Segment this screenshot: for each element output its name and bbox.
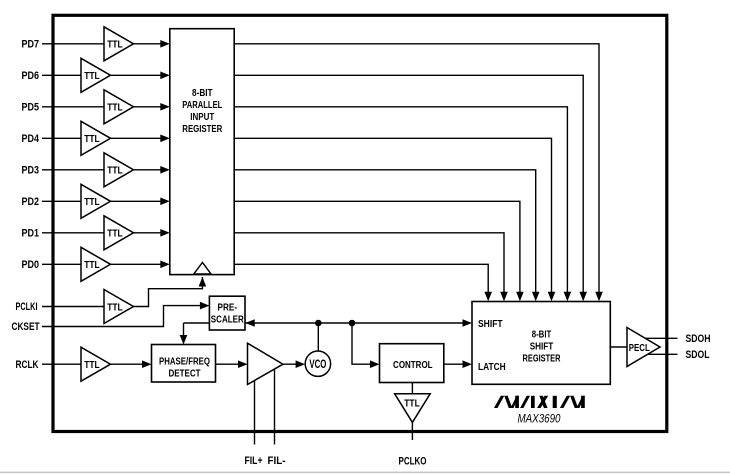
8-bit parallel input register block	[170, 29, 234, 275]
arrow RCLK into phase detector	[142, 360, 152, 368]
wire RCLK buffer to phase detector	[111, 363, 149, 365]
wire PD6 input	[42, 74, 166, 76]
buffer TTL PCLKI	[104, 290, 134, 324]
arrow PD1 into register	[160, 229, 170, 237]
wire FIL+	[254, 380, 256, 445]
arrow CKSET into prescaler	[200, 302, 210, 310]
arrow Q5 into shift register	[564, 292, 572, 302]
arrow PD4 into register	[160, 135, 170, 143]
buffer TTL PD7	[104, 27, 134, 61]
arrow Q7 into shift register	[595, 292, 603, 302]
wire clock to control	[352, 323, 377, 364]
svg-text:DETECT: DETECT	[169, 368, 201, 379]
arrow PD5 into register	[160, 103, 170, 111]
arrow Q1 into shift register	[500, 292, 508, 302]
pin labels left	[12, 39, 40, 371]
wire PCLKO output	[411, 422, 413, 440]
wire RCLK input	[42, 363, 81, 365]
arrow clock bus into shift input	[463, 319, 473, 327]
VCO	[305, 351, 330, 376]
arrow clock into parallel register	[199, 277, 207, 287]
wire Q2 to shift register	[234, 201, 520, 294]
svg-text:PCLKI: PCLKI	[16, 301, 38, 313]
arrow Q3 into shift register	[532, 292, 540, 302]
wire SDOH output	[645, 337, 677, 339]
MAXIM logo	[494, 396, 585, 408]
svg-text:MAX3690: MAX3690	[518, 412, 561, 426]
buffer TTL PD3	[104, 153, 134, 187]
arrowheads	[142, 40, 603, 368]
wire CKSET to prescaler	[42, 306, 207, 327]
svg-text:TTL: TTL	[404, 398, 420, 410]
border frame of MAX3690	[53, 15, 667, 431]
arrow PD2 into register	[160, 198, 170, 206]
wire FIL-	[274, 369, 276, 445]
arrow Q0 into shift register	[484, 292, 492, 302]
prescaler block	[209, 296, 245, 330]
svg-text:RCLK: RCLK	[16, 359, 39, 371]
svg-text:PRE-: PRE-	[218, 303, 238, 314]
buffer TTL PD6	[81, 58, 111, 92]
wire Q4 to shift register	[234, 138, 551, 294]
svg-text:PD7: PD7	[22, 39, 40, 51]
svg-text:FIL+: FIL+	[245, 455, 263, 467]
svg-text:PD1: PD1	[22, 228, 40, 240]
arrow into loop amp	[238, 360, 248, 368]
pin labels right and bottom	[245, 333, 711, 467]
loop filter amplifier	[248, 343, 284, 384]
control block	[380, 344, 444, 383]
wire Q1 to shift register	[234, 233, 504, 294]
svg-text:PD6: PD6	[22, 70, 40, 82]
svg-text:PECL: PECL	[629, 343, 650, 354]
arrow Q2 into shift register	[516, 292, 524, 302]
svg-text:PCLKO: PCLKO	[399, 455, 427, 467]
wire PD4 input	[42, 137, 166, 139]
arrow PD6 into register	[160, 72, 170, 80]
wire VCO stem	[317, 323, 319, 352]
PECL output buffer	[627, 328, 660, 367]
svg-text:REGISTER: REGISTER	[523, 353, 562, 364]
wires: register outputs to shift register	[234, 44, 599, 294]
svg-text:8-BIT: 8-BIT	[532, 329, 552, 340]
wire control to TTL output buffer	[411, 383, 413, 394]
wire PD5 input	[42, 106, 166, 108]
wire Q6 to shift register	[234, 75, 583, 294]
arrow clock bus into prescaler	[245, 319, 255, 327]
svg-text:VCO: VCO	[309, 359, 326, 371]
svg-text:SCALER: SCALER	[211, 314, 245, 325]
wire PCLKI to register clock	[42, 306, 104, 308]
buffer TTL PD5	[104, 90, 134, 124]
phase/freq detect block	[152, 345, 216, 383]
wire SDOL output	[647, 353, 677, 355]
arrow Q6 into shift register	[579, 292, 587, 302]
wire Q7 to shift register	[234, 44, 599, 294]
svg-text:PHASE/FREQ: PHASE/FREQ	[159, 356, 210, 367]
arrow prescaler into phase detector	[180, 335, 188, 345]
svg-text:PD2: PD2	[22, 196, 40, 208]
svg-text:CONTROL: CONTROL	[393, 359, 433, 371]
svg-text:SDOL: SDOL	[686, 349, 710, 361]
svg-text:PARALLEL: PARALLEL	[182, 100, 222, 111]
wire Q3 to shift register	[234, 170, 536, 294]
svg-text:CKSET: CKSET	[12, 321, 40, 333]
buffer TTL PD1	[104, 216, 134, 250]
wire VCO clock bus	[184, 322, 464, 324]
svg-text:PD3: PD3	[22, 165, 40, 177]
wire Q0 to shift register	[234, 264, 488, 294]
wire prescaler output to phase detector	[183, 323, 185, 341]
svg-text:8-BIT: 8-BIT	[192, 88, 213, 99]
junction node on clock bus above VCO	[315, 320, 322, 327]
arrow PD3 into register	[160, 166, 170, 174]
arrow into VCO	[296, 360, 306, 368]
svg-text:REGISTER: REGISTER	[182, 124, 223, 135]
buffer TTL RCLK	[81, 347, 111, 381]
buffer TTL PD2	[81, 184, 111, 218]
buffer TTL PD0	[81, 247, 111, 281]
wire PD1 input	[42, 232, 166, 234]
8-bit shift register block	[472, 302, 610, 385]
arrow PD0 into register	[160, 261, 170, 269]
wire shift register to PECL buffer	[610, 346, 627, 348]
wire PD0 input	[42, 263, 166, 265]
wire PD3 input	[42, 169, 166, 171]
page footer rule	[0, 472, 730, 474]
svg-text:FIL-: FIL-	[268, 455, 286, 467]
arrow PD7 into register	[160, 40, 170, 48]
wire PD2 input	[42, 200, 166, 202]
wire loop amp to VCO	[283, 363, 302, 365]
buffer TTL PD4	[81, 121, 111, 155]
arrow Q4 into shift register	[548, 292, 556, 302]
arrow into control	[370, 360, 380, 368]
svg-text:SHIFT: SHIFT	[530, 341, 554, 352]
wire control to latch	[444, 363, 463, 365]
arrow control into latch input	[463, 360, 473, 368]
svg-text:SHIFT: SHIFT	[478, 318, 503, 330]
TTL output buffer (PCLKO)	[395, 394, 431, 423]
svg-text:PD0: PD0	[22, 259, 40, 271]
wires: PD input lines	[42, 44, 166, 264]
svg-text:LATCH: LATCH	[478, 361, 506, 373]
svg-text:SDOH: SDOH	[686, 333, 711, 345]
wire phase detector to loop amp	[216, 363, 245, 365]
clock chevron of parallel register	[194, 262, 211, 274]
wire PD7 input	[42, 43, 166, 45]
wire Q5 to shift register	[234, 107, 567, 294]
svg-text:PD5: PD5	[22, 102, 40, 114]
svg-text:INPUT: INPUT	[190, 112, 214, 123]
svg-text:PD4: PD4	[22, 133, 40, 145]
junction node on clock bus above control	[349, 320, 356, 327]
